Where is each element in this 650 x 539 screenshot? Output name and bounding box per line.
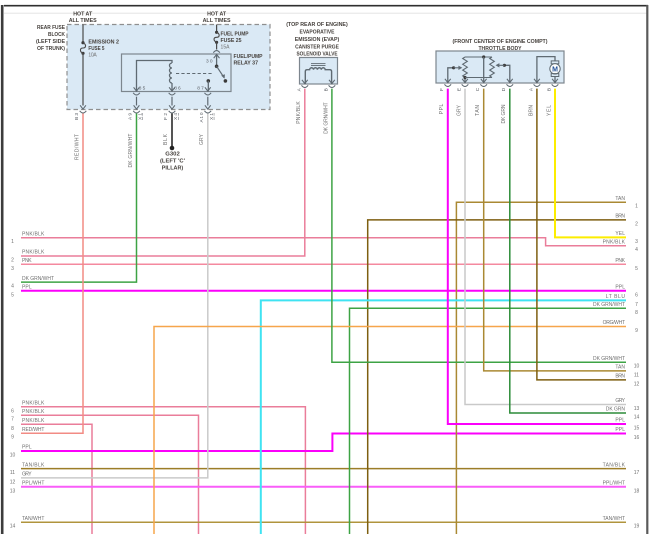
- svg-text:CANISTER PURGE: CANISTER PURGE: [295, 44, 339, 50]
- motor M1 circle: [550, 64, 560, 74]
- svg-text:10: 10: [10, 453, 16, 459]
- svg-text:4: 4: [11, 284, 14, 290]
- svg-text:5: 5: [635, 266, 638, 272]
- throttle body box: [436, 51, 564, 83]
- wiper arrow 1: [454, 67, 460, 69]
- svg-text:EMISSION 2: EMISSION 2: [88, 39, 119, 45]
- evap solenoid box: [300, 58, 338, 85]
- relay box FUEL/PUMP RELAY 37: [122, 54, 232, 92]
- connector block edge x172: [169, 105, 175, 109]
- svg-text:FUSE 25: FUSE 25: [221, 38, 242, 44]
- svg-text:ALL TIMES: ALL TIMES: [69, 18, 97, 24]
- svg-text:(LEFT SIDE: (LEFT SIDE: [36, 39, 65, 45]
- svg-text:(FRONT CENTER OF ENGINE COMPT): (FRONT CENTER OF ENGINE COMPT): [453, 39, 548, 45]
- relay coil to pin 86: [171, 83, 173, 92]
- svg-text:2: 2: [635, 221, 638, 227]
- svg-text:86: 86: [174, 86, 181, 92]
- wire R11 TAN from TB C: [484, 89, 626, 371]
- wire L12 GRY to relay 87: [21, 114, 208, 478]
- fuse F1 EMISSION 2 FUSE 5 10A: [81, 41, 84, 44]
- ground splice G302: [170, 146, 175, 151]
- wire L13 PPL/WHT to R18: [21, 486, 626, 488]
- svg-text:RED/WHT: RED/WHT: [22, 427, 44, 433]
- svg-text:RELAY 37: RELAY 37: [234, 60, 259, 66]
- svg-text:3: 3: [11, 266, 14, 272]
- wire TB pin D to wiper: [504, 65, 509, 83]
- svg-text:7: 7: [635, 302, 638, 308]
- svg-text:PNK/BLK: PNK/BLK: [603, 239, 626, 245]
- wiper arrow 2: [499, 64, 505, 66]
- wire R8 DK GRN/WHT: [350, 308, 627, 534]
- wire R3 YEL from TB B: [555, 89, 626, 238]
- svg-text:(LEFT 'C': (LEFT 'C': [160, 159, 185, 165]
- svg-text:HOT AT: HOT AT: [73, 11, 93, 17]
- junction dot pin D wiper: [503, 64, 506, 67]
- svg-text:TAN: TAN: [615, 365, 625, 371]
- svg-text:PPL/WHT: PPL/WHT: [603, 481, 625, 487]
- svg-text:(TOP REAR OF ENGINE): (TOP REAR OF ENGINE): [286, 22, 348, 28]
- svg-text:GRY: GRY: [22, 472, 32, 478]
- wire relay pin 86 to block edge: [171, 97, 173, 106]
- svg-text:X1: X1: [209, 113, 215, 120]
- svg-text:PPL: PPL: [439, 104, 445, 115]
- page frame right: [646, 5, 648, 534]
- svg-text:SOLENOID VALVE: SOLENOID VALVE: [297, 52, 338, 58]
- svg-text:6: 6: [635, 292, 638, 298]
- svg-text:A10: A10: [199, 112, 205, 122]
- connector TB pin F: [445, 79, 451, 83]
- svg-text:85: 85: [139, 86, 146, 92]
- svg-text:YEL: YEL: [546, 105, 552, 116]
- svg-text:HOT AT: HOT AT: [207, 11, 227, 17]
- svg-text:X1: X1: [138, 113, 144, 120]
- svg-text:11: 11: [10, 470, 15, 476]
- svg-text:ORG/WHT: ORG/WHT: [603, 320, 625, 326]
- svg-text:TAN: TAN: [615, 196, 625, 202]
- svg-text:9: 9: [635, 328, 638, 334]
- wire L4 DK GRN/WHT to relay 85: [21, 114, 137, 283]
- connector TB pin D: [507, 79, 513, 83]
- page frame top inner faint line: [4, 12, 647, 14]
- wire L8 PNK/BLK down: [21, 424, 92, 534]
- TB top rail: [465, 56, 492, 58]
- svg-text:DK GRN/WHT: DK GRN/WHT: [324, 102, 330, 134]
- svg-text:4: 4: [635, 247, 638, 253]
- relay switch common dot: [215, 65, 219, 69]
- wire R12 BRN from TB A: [537, 89, 626, 380]
- connector B3 at fuse block edge: [80, 105, 86, 109]
- relay mechanical link (dashed): [176, 73, 213, 75]
- svg-text:PNK/BLK: PNK/BLK: [22, 418, 45, 424]
- svg-text:14: 14: [10, 524, 16, 530]
- wire L11 TAN/BLK to R17: [21, 468, 626, 470]
- svg-text:REAR FUSE: REAR FUSE: [37, 25, 65, 31]
- wire motor to pin B: [554, 76, 556, 83]
- svg-text:F: F: [439, 88, 445, 91]
- svg-text:BLOCK: BLOCK: [48, 32, 65, 38]
- svg-text:B: B: [546, 88, 552, 91]
- svg-text:1: 1: [11, 239, 14, 245]
- wire fuse1 feed: [82, 25, 84, 43]
- svg-text:14: 14: [634, 415, 640, 421]
- svg-text:DK GRN: DK GRN: [606, 407, 626, 413]
- svg-text:FUEL/PUMP: FUEL/PUMP: [234, 54, 263, 60]
- svg-text:YEL: YEL: [615, 231, 625, 237]
- relay coil: [170, 63, 173, 83]
- wire R9 ORG/WHT: [154, 327, 626, 535]
- wire L14 TAN/WHT to R19: [21, 521, 626, 523]
- connector block edge x136.5: [134, 105, 140, 109]
- connector TB pin A: [534, 79, 540, 83]
- relay switch contact dot: [224, 79, 228, 83]
- svg-text:18: 18: [634, 488, 640, 494]
- svg-text:PPL: PPL: [22, 285, 32, 291]
- wire R13 GRY from TB E: [465, 89, 626, 405]
- wire L10 PPL to R16: [21, 434, 626, 452]
- svg-text:15: 15: [634, 426, 640, 432]
- svg-text:PPL: PPL: [615, 418, 625, 424]
- svg-text:13: 13: [10, 488, 16, 494]
- junction dot pin E: [463, 76, 466, 79]
- svg-text:9: 9: [11, 435, 14, 441]
- svg-text:PNK/BLK: PNK/BLK: [22, 250, 45, 256]
- svg-text:PNK/BLK: PNK/BLK: [296, 101, 302, 124]
- svg-text:B3: B3: [74, 113, 80, 120]
- motor M1 top brush: [551, 61, 559, 64]
- connector evap pin B: [329, 80, 335, 84]
- wire L9 RED/WHT to fuse1: [21, 114, 83, 434]
- relay coil loop wire: [137, 61, 173, 92]
- svg-text:TAN/BLK: TAN/BLK: [22, 462, 45, 468]
- svg-text:GRY: GRY: [199, 133, 205, 145]
- svg-text:11: 11: [634, 372, 639, 378]
- wire R1 TAN: [456, 202, 626, 534]
- wire R2 BRN: [368, 220, 626, 534]
- wire R10 DK GRN/WHT from EVAP B: [332, 89, 626, 363]
- wire L2 PNK/BLK to EVAP A: [21, 89, 305, 256]
- relay switch arm: [217, 66, 225, 78]
- wire R7 LT BLU: [261, 300, 626, 534]
- relay pin 30 wire: [216, 54, 218, 66]
- TB bottom rail: [465, 77, 492, 79]
- svg-text:PPL: PPL: [22, 445, 32, 451]
- svg-text:GRY: GRY: [456, 104, 462, 116]
- connector TB pin B: [552, 79, 558, 83]
- wire TB pin F to wiper: [448, 68, 454, 83]
- connector evap pin A: [302, 80, 308, 84]
- svg-text:2: 2: [11, 258, 14, 264]
- junction dot pin F wiper: [452, 66, 455, 69]
- svg-text:10: 10: [634, 364, 640, 370]
- svg-text:PPL: PPL: [615, 285, 625, 291]
- svg-text:X4: X4: [173, 113, 179, 120]
- svg-text:DK GRN/WHT: DK GRN/WHT: [22, 276, 54, 282]
- svg-text:PNK: PNK: [615, 258, 625, 264]
- wire relay pin 87 to block edge: [207, 97, 209, 106]
- page frame top: [4, 5, 648, 7]
- svg-text:19: 19: [634, 524, 640, 530]
- svg-text:G302: G302: [165, 152, 180, 158]
- evap core bars: [311, 63, 326, 65]
- svg-text:TAN: TAN: [475, 105, 481, 116]
- svg-text:6: 6: [11, 408, 14, 414]
- junction dot top rail: [482, 55, 485, 58]
- svg-text:PPL: PPL: [615, 427, 625, 433]
- wire relay pin 85 to block edge: [136, 97, 138, 106]
- relay pin 87 contact dot: [207, 79, 211, 83]
- svg-text:PNK/BLK: PNK/BLK: [22, 231, 45, 237]
- connector TB pin E: [462, 79, 468, 83]
- svg-text:LT BLU: LT BLU: [606, 294, 626, 300]
- svg-text:EMISSION (EVAP): EMISSION (EVAP): [295, 37, 340, 43]
- relay pin 87 wire: [207, 81, 209, 92]
- svg-text:D: D: [501, 87, 507, 91]
- svg-text:13: 13: [634, 406, 640, 412]
- svg-text:EVAPORATIVE: EVAPORATIVE: [300, 30, 335, 36]
- svg-text:DK GRN: DK GRN: [501, 104, 507, 123]
- svg-text:1: 1: [635, 204, 638, 210]
- page frame left: [1, 5, 4, 534]
- svg-text:87: 87: [197, 86, 204, 92]
- evap coil: [305, 68, 331, 84]
- wire fuse2 feed: [216, 25, 218, 33]
- wire TB pin C: [483, 57, 485, 83]
- wire L5 PPL to R6: [21, 290, 626, 292]
- svg-text:TAN/WHT: TAN/WHT: [603, 516, 625, 522]
- svg-text:FUEL PUMP: FUEL PUMP: [221, 32, 249, 38]
- connector TB pin C: [481, 79, 487, 83]
- svg-text:12: 12: [10, 479, 16, 485]
- svg-text:DK GRN/WHT: DK GRN/WHT: [593, 302, 625, 308]
- svg-text:16: 16: [634, 435, 640, 441]
- svg-text:BRN: BRN: [528, 105, 534, 116]
- svg-text:E: E: [456, 88, 462, 91]
- svg-text:3: 3: [635, 239, 638, 245]
- wire R14 DK GRN from TB D: [510, 89, 626, 413]
- svg-text:FUSE 5: FUSE 5: [88, 46, 104, 52]
- connector at relay pin 30: [214, 54, 220, 58]
- svg-text:TAN/BLK: TAN/BLK: [603, 462, 626, 468]
- svg-text:GRY: GRY: [615, 398, 625, 404]
- svg-text:M: M: [552, 66, 558, 73]
- rear fuse block box: [67, 25, 270, 110]
- svg-text:PNK: PNK: [22, 258, 32, 264]
- fuse F2 FUEL PUMP FUSE 25 15A: [215, 31, 218, 34]
- wire L3 PNK to R5: [21, 263, 626, 265]
- svg-text:ALL TIMES: ALL TIMES: [203, 18, 231, 24]
- svg-text:PPL/WHT: PPL/WHT: [22, 481, 44, 487]
- svg-text:8: 8: [11, 426, 14, 432]
- svg-text:12: 12: [634, 381, 640, 387]
- svg-text:17: 17: [634, 470, 640, 476]
- svg-text:15A: 15A: [221, 45, 231, 51]
- wire L1 PNK/BLK to R4: [21, 238, 626, 246]
- wire fuse2 to relay: [216, 42, 218, 49]
- connector relay pin 86 bottom: [169, 87, 175, 91]
- svg-text:OF TRUNK): OF TRUNK): [37, 46, 65, 52]
- svg-text:A9: A9: [128, 113, 134, 120]
- wire R15 PPL from TB F: [448, 89, 626, 424]
- svg-text:B: B: [323, 88, 329, 91]
- resistor pot 1: [463, 57, 468, 78]
- svg-text:5: 5: [11, 292, 14, 298]
- wire fuse1 to connector: [82, 53, 84, 105]
- svg-text:PNK/BLK: PNK/BLK: [22, 409, 45, 415]
- connector block edge x207.8: [205, 105, 211, 109]
- svg-text:8: 8: [635, 310, 638, 316]
- wire TB pin E: [464, 78, 466, 84]
- wire TB pin A to motor: [537, 57, 555, 83]
- svg-text:DK GRN/WHT: DK GRN/WHT: [593, 356, 625, 362]
- svg-text:7: 7: [11, 417, 14, 423]
- svg-text:10A: 10A: [88, 52, 97, 58]
- svg-text:RED/WHT: RED/WHT: [74, 134, 80, 160]
- wire L6 PNK/BLK down: [21, 407, 305, 534]
- svg-text:BRN: BRN: [615, 214, 625, 220]
- svg-text:TAN/WHT: TAN/WHT: [22, 516, 44, 522]
- svg-text:30: 30: [206, 59, 213, 65]
- wire L7 PNK/BLK down: [21, 415, 199, 534]
- svg-text:C: C: [475, 87, 481, 91]
- motor M1 bottom brush: [551, 74, 559, 77]
- svg-text:PNK/BLK: PNK/BLK: [22, 401, 45, 407]
- svg-text:BLK: BLK: [163, 133, 169, 145]
- resistor pot 2: [490, 57, 495, 78]
- connector relay pin 85 bottom: [134, 87, 140, 91]
- svg-text:PILLAR): PILLAR): [162, 166, 184, 172]
- connector relay pin 87 bottom: [205, 87, 211, 91]
- svg-text:BRN: BRN: [615, 374, 625, 380]
- wire BLK to ground: [171, 114, 173, 147]
- svg-text:F2: F2: [163, 113, 169, 120]
- svg-text:DK GRN/WHT: DK GRN/WHT: [128, 134, 134, 168]
